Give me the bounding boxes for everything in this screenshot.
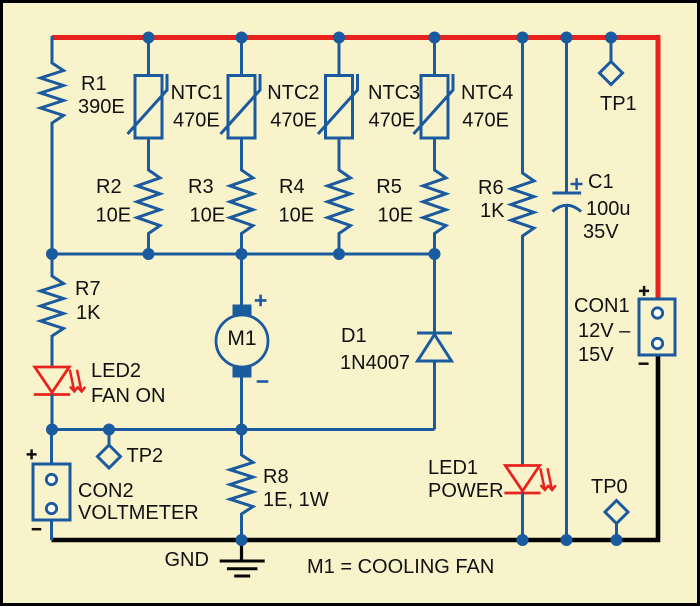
svg-text:NTC3: NTC3 [368, 82, 420, 104]
resistor R8 [230, 455, 253, 514]
wire: D1 bottom lead [433, 360, 436, 430]
svg-text:470E: 470E [270, 109, 317, 131]
LED LED1 (power indicator) [504, 466, 555, 494]
junction: ground rail / LED1 [517, 534, 529, 546]
junction: fan node / LED2 / CON2 [46, 424, 58, 436]
junction: +V rail / C1 [561, 32, 573, 44]
wire: CON2 bottom lead [50, 520, 53, 540]
motor M1 [216, 305, 268, 378]
CON2 polarity minus [32, 528, 42, 531]
junction: sensor bus / R2 [143, 248, 155, 260]
junction: +V rail / R6 [517, 32, 529, 44]
svg-text:10E: 10E [190, 205, 226, 227]
svg-text:R4: R4 [279, 176, 305, 198]
M1 polarity plus [255, 295, 267, 307]
wire: NTC3-R4 link [338, 137, 341, 171]
wire: TP0 lead [615, 524, 618, 540]
junction: fan node / M1 / R8 [236, 424, 248, 436]
svg-text:FAN ON: FAN ON [91, 385, 165, 407]
svg-text:M1 = COOLING FAN: M1 = COOLING FAN [307, 556, 494, 578]
test point TP1 [600, 62, 623, 85]
junction: sensor bus / R4 [333, 248, 345, 260]
resistor R7 [41, 276, 64, 336]
LED2 (fan-on indicator) [34, 367, 85, 395]
CON1 polarity minus [639, 362, 649, 365]
svg-text:VOLTMETER: VOLTMETER [78, 502, 199, 524]
wire: NTC3 top lead [338, 36, 341, 76]
wire: +V top rail (red) [52, 38, 658, 300]
wire: R5 bottom lead [433, 233, 436, 255]
wire: NTC2 top lead [240, 36, 243, 76]
resistor R1 [41, 63, 64, 123]
wire: NTC1-R2 link [147, 137, 150, 171]
thermistor NTC3 [318, 74, 358, 138]
M1 polarity minus [257, 380, 269, 383]
svg-text:M1: M1 [227, 327, 256, 350]
junction: sensor bus / R5 / D1 [429, 248, 441, 260]
junction: +V rail / NTC3 [333, 32, 345, 44]
svg-text:470E: 470E [369, 109, 416, 131]
resistor R4 [328, 170, 351, 234]
wire: TP2 lead [108, 430, 111, 447]
svg-text:R5: R5 [376, 176, 402, 198]
svg-text:R2: R2 [96, 176, 122, 198]
svg-text:CON2: CON2 [78, 480, 134, 502]
wire: R4 bottom lead [338, 233, 341, 255]
svg-text:10E: 10E [378, 205, 414, 227]
junction: sensor bus / R1-R7 [46, 248, 58, 260]
svg-text:390E: 390E [78, 96, 125, 118]
svg-text:R6: R6 [478, 177, 504, 199]
connector CON1 [639, 299, 675, 355]
junction: ground rail / R8 / GND [236, 534, 248, 546]
diode D1 [417, 333, 452, 361]
wire: D1 top lead [433, 254, 436, 333]
connector CON2 [33, 464, 70, 520]
svg-text:1N4007: 1N4007 [340, 352, 410, 374]
svg-text:D1: D1 [341, 325, 367, 347]
wire: R8 bottom lead [240, 513, 243, 540]
junction: ground rail / C1 [561, 534, 573, 546]
C1 polarity plus [571, 178, 583, 190]
svg-text:1K: 1K [76, 302, 101, 324]
svg-text:10E: 10E [279, 205, 315, 227]
svg-text:35V: 35V [583, 221, 619, 243]
wire: sensor bus (middle horizontal) [52, 253, 435, 256]
resistor R2 [137, 170, 160, 234]
svg-text:470E: 470E [173, 109, 220, 131]
resistor R6 [511, 173, 534, 236]
wire: NTC4-R5 link [433, 137, 436, 171]
svg-text:R1: R1 [81, 73, 107, 95]
wire: R3 bottom lead [240, 233, 243, 255]
svg-text:470E: 470E [462, 109, 509, 131]
wire: C1 bottom lead [565, 206, 568, 540]
wire: R7 to LED2 [51, 335, 54, 368]
svg-text:NTC4: NTC4 [461, 82, 513, 104]
test point TP2 [98, 445, 121, 468]
ground symbol [220, 540, 265, 576]
wire: R7 top lead [51, 254, 54, 277]
junction: +V rail / TP1 [605, 32, 617, 44]
wire: LED1 bottom lead [521, 493, 524, 541]
resistor R5 [423, 170, 446, 234]
wire: R6 top lead [521, 36, 524, 174]
svg-text:GND: GND [165, 549, 209, 571]
resistor R3 [230, 170, 253, 234]
test point TP0 [605, 501, 628, 524]
wire: NTC1 top lead [147, 36, 150, 76]
svg-text:R8: R8 [263, 466, 289, 488]
junction: +V rail / NTC1 [143, 32, 155, 44]
svg-text:R7: R7 [75, 278, 101, 300]
svg-text:12V –: 12V – [578, 320, 631, 342]
CON2 polarity plus [27, 449, 37, 459]
svg-text:15V: 15V [578, 344, 614, 366]
svg-text:10E: 10E [96, 205, 132, 227]
svg-text:1E, 1W: 1E, 1W [263, 489, 329, 511]
junction: ground rail / TP0 [611, 534, 623, 546]
wire: R1 top lead [51, 36, 54, 64]
wire: C1 top lead [565, 36, 568, 193]
wire: fan node bus (lower horizontal) [51, 428, 435, 431]
wire: TP1 lead [610, 38, 613, 63]
junction: +V rail / NTC4 [429, 32, 441, 44]
wire: M1 top lead [240, 254, 243, 305]
svg-text:LED1: LED1 [428, 457, 478, 479]
svg-text:100u: 100u [586, 198, 631, 220]
svg-text:TP0: TP0 [591, 476, 628, 498]
capacitor C1 [552, 193, 581, 212]
svg-text:NTC1: NTC1 [171, 82, 223, 104]
CON1 polarity plus [639, 286, 649, 296]
svg-text:POWER: POWER [428, 480, 504, 502]
junction: fan node / TP2 [103, 424, 115, 436]
svg-text:R3: R3 [188, 176, 214, 198]
junction: +V rail / NTC2 [236, 32, 248, 44]
thermistor NTC4 [414, 74, 454, 138]
wire: R2 bottom lead [147, 233, 150, 255]
svg-text:1K: 1K [480, 200, 505, 222]
svg-text:NTC2: NTC2 [267, 82, 319, 104]
svg-text:TP1: TP1 [600, 93, 637, 115]
thermistor NTC1 [128, 74, 168, 138]
wire: R1 bottom lead [51, 122, 54, 254]
svg-text:LED2: LED2 [91, 360, 141, 382]
svg-text:CON1: CON1 [574, 295, 630, 317]
thermistor NTC2 [221, 74, 261, 138]
wire: ground rail (black) [52, 355, 659, 540]
wire: R6 to LED1 [521, 235, 524, 466]
junction: sensor bus / R3 / M1 [236, 248, 248, 260]
svg-text:C1: C1 [588, 171, 614, 193]
wire: LED2 bottom lead [51, 395, 54, 430]
wire: CON2 top lead [50, 430, 53, 466]
svg-text:TP2: TP2 [127, 445, 164, 467]
wire: M1 bottom lead [240, 377, 243, 430]
wire: NTC4 top lead [433, 36, 436, 76]
wire: NTC2-R3 link [240, 137, 243, 171]
wire: R8 top lead [240, 430, 243, 457]
